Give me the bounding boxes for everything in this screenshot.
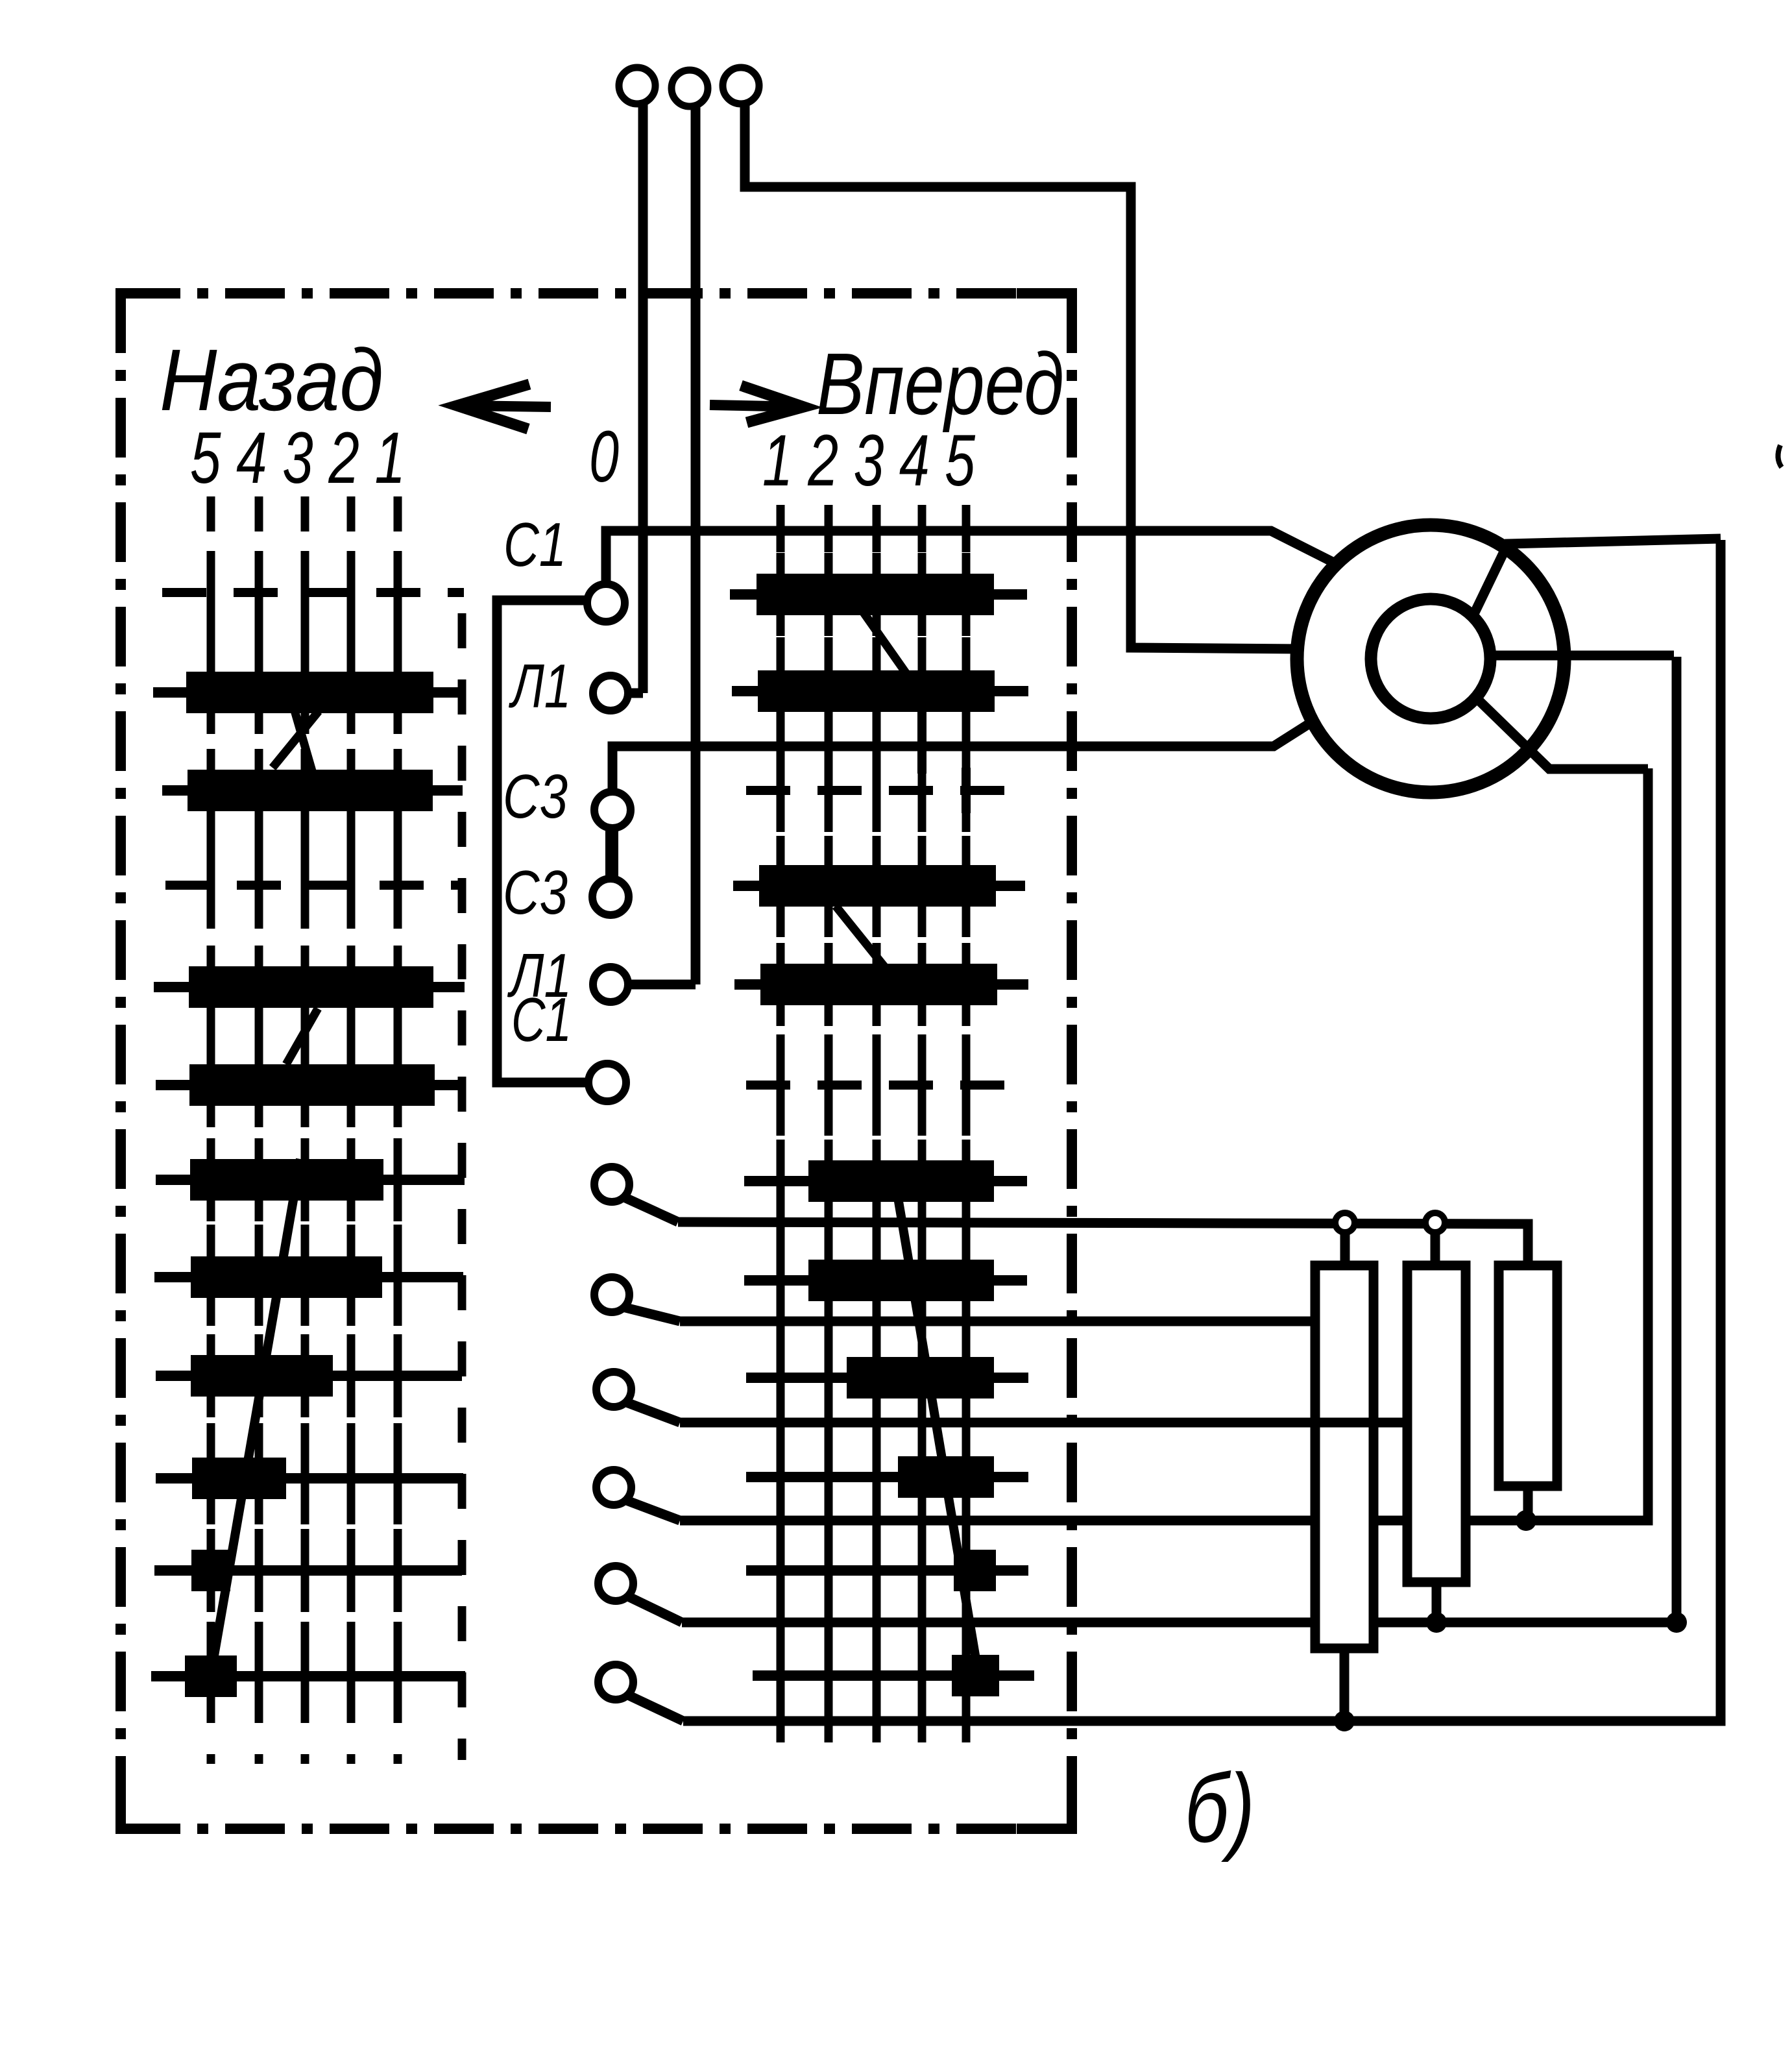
resistor R3 (box) xyxy=(1499,1265,1557,1486)
rotor wire 5 junction with motor slip-ring wire xyxy=(627,657,1677,1622)
rotor wire 1 to resistor tops xyxy=(623,1197,1528,1267)
contact segment C1 forward row xyxy=(730,553,1027,636)
rotor contact segment row 11 forward xyxy=(746,1529,1028,1612)
sequence diagonal backward rows 7-12 (long) xyxy=(211,1159,300,1674)
terminal C3 (circle) xyxy=(594,792,631,828)
junction dot R2 bottom xyxy=(1426,1612,1447,1633)
motor stator (outer circle) xyxy=(1297,525,1564,792)
sequence diagonal backward rows 2-3 (X mark) xyxy=(272,706,319,771)
rotor wire 3 to resistor R2 side (crosses R1) xyxy=(625,1402,1407,1423)
junction dot R1 bottom xyxy=(1334,1711,1355,1731)
position line 5 (forward column) xyxy=(962,505,971,1752)
svg-text:1 2 3 4 5: 1 2 3 4 5 xyxy=(762,420,976,501)
rotor tap terminal 6 (circle) xyxy=(598,1665,633,1700)
resistor R1 (box) xyxy=(1315,1265,1374,1648)
motor slip-ring wire C (bottom) xyxy=(1478,700,1648,769)
terminal C3-prime (circle) xyxy=(592,879,629,915)
wire supply 3 to motor stator (middle phase) xyxy=(745,104,1300,649)
sequence diagonal forward rows 7-12 (long) xyxy=(893,1167,978,1674)
rotor wire 6 junction with motor slip-ring wire xyxy=(627,540,1721,1721)
motor slip-ring wire A (top) xyxy=(1473,539,1721,617)
terminal L1-prime (circle) xyxy=(593,967,628,1002)
junction dot R3 bottom xyxy=(1516,1510,1536,1531)
svg-text:С1: С1 xyxy=(511,985,572,1055)
rotor contact segment row 10 backward xyxy=(156,1437,463,1520)
rotor tap terminal 2 (circle) xyxy=(594,1277,629,1312)
arrow right (forward direction) xyxy=(710,385,804,422)
stub to resistor R2 top xyxy=(1431,1232,1440,1269)
rotor contact segment row 11 backward xyxy=(154,1529,462,1612)
wire supply 1 to L1 terminal xyxy=(627,104,643,693)
svg-text:С1: С1 xyxy=(503,510,566,580)
terminal C1-prime (circle) xyxy=(588,1064,626,1101)
stray scan mark xyxy=(1778,445,1782,467)
svg-text:5 4 3 2 1: 5 4 3 2 1 xyxy=(190,417,406,498)
svg-text:Л1: Л1 xyxy=(508,652,571,721)
stub to resistor R1 top xyxy=(1340,1232,1350,1269)
rotor tap terminal 5 (circle) xyxy=(598,1566,633,1601)
contact segment L1 backward row xyxy=(153,651,462,734)
rotor wire 4 junction with motor slip-ring wire xyxy=(625,768,1648,1521)
contact segment L1 forward row xyxy=(732,650,1028,733)
position line 4 (backward column) xyxy=(255,496,263,1764)
stub resistor R1 bottom xyxy=(1340,1648,1350,1721)
position line 4 (forward column) xyxy=(918,505,926,1752)
position line 2 (forward column) xyxy=(825,505,833,1752)
position line 1 (forward column) xyxy=(777,505,785,1752)
svg-text:б): б) xyxy=(1185,1753,1255,1863)
position line 3 (backward column) xyxy=(301,496,309,1764)
contact segment C3' forward row xyxy=(733,844,1025,927)
supply terminal 2 (circle) xyxy=(672,70,708,106)
rotor contact segment row 8 backward xyxy=(154,1236,463,1319)
supply terminal 1 (circle) xyxy=(619,67,655,104)
rotor contact segment row 10 forward xyxy=(746,1435,1028,1519)
wire supply 2 to L1-prime terminal xyxy=(625,106,696,984)
rotor contact segment row 9 forward xyxy=(746,1336,1028,1419)
sequence diagonal forward rows 4-5 xyxy=(836,906,889,972)
terminal C1 (circle) xyxy=(587,584,625,622)
wire C3 to motor stator (bottom phase) xyxy=(612,720,1314,793)
svg-text:Назад: Назад xyxy=(160,331,383,429)
rotor contact segment row 7 backward xyxy=(156,1138,465,1221)
rotor contact segment row 8 forward xyxy=(744,1239,1027,1322)
stub resistor R3 bottom xyxy=(1523,1486,1533,1521)
rotor tap terminal 4 (circle) xyxy=(596,1470,631,1505)
position line 0 (zero column) xyxy=(458,613,466,1760)
rotor wire 2 to resistor R1 side xyxy=(623,1307,1315,1321)
contact segment L1' backward row xyxy=(154,946,465,1029)
resistor R2 (box) xyxy=(1407,1265,1466,1582)
svg-text:Вперед: Вперед xyxy=(816,335,1064,433)
contact segment L1' forward row xyxy=(734,943,1028,1026)
svg-text:0: 0 xyxy=(589,416,619,497)
contact segment C1' backward row xyxy=(156,1044,464,1127)
crossing ticks on horizontal wires xyxy=(781,509,966,1742)
bracket joining C1 and C1-prime xyxy=(497,600,589,1082)
controller enclosure border (dash-dot box) xyxy=(121,293,1072,1829)
contact segment C3 backward row xyxy=(162,749,463,832)
rotor contact segment row 7 forward xyxy=(744,1140,1027,1223)
stub resistor R2 bottom xyxy=(1432,1582,1442,1622)
tap circle on rotor wire 1 (R2) xyxy=(1425,1213,1445,1232)
rotor contact segment row 12 backward xyxy=(151,1635,465,1718)
junction dot wire5 corner xyxy=(1666,1612,1687,1633)
svg-text:С3: С3 xyxy=(503,762,568,831)
contact row C3 backward (dashed) xyxy=(165,844,461,927)
position line 2 (backward column) xyxy=(347,496,356,1764)
rotor tap terminal 3 (circle) xyxy=(596,1372,631,1407)
svg-text:С3: С3 xyxy=(503,858,568,927)
contact row C3 forward (dashed) xyxy=(746,711,1027,832)
sequence diagonal forward rows 1-2 xyxy=(864,613,906,674)
terminal L1 (circle) xyxy=(593,676,628,711)
rotor contact segment row 9 backward xyxy=(156,1334,462,1417)
link C3 to C3-prime xyxy=(605,824,618,883)
contact row C1 backward (dashed, position row 1L) xyxy=(162,551,464,634)
position line 5 (backward column) xyxy=(207,496,215,1764)
supply terminal 3 (circle) xyxy=(723,67,759,104)
position line 3 (forward column) xyxy=(873,505,881,1752)
contact row C1' forward (dashed) xyxy=(746,1044,1032,1127)
sequence diagonal backward rows 5-6 xyxy=(286,1008,318,1064)
wire C1 to motor stator (top phase) xyxy=(606,531,1335,583)
arrow left (backward direction) xyxy=(457,384,551,429)
position line 1 (backward column) xyxy=(394,496,402,1764)
motor slip-ring wire B (middle) xyxy=(1490,651,1674,661)
motor rotor (inner circle) xyxy=(1371,599,1490,718)
rotor tap terminal 1 (circle) xyxy=(594,1167,629,1202)
rotor contact segment row 12 forward xyxy=(753,1634,1034,1717)
tap circle on rotor wire 1 (R1) xyxy=(1335,1213,1355,1232)
